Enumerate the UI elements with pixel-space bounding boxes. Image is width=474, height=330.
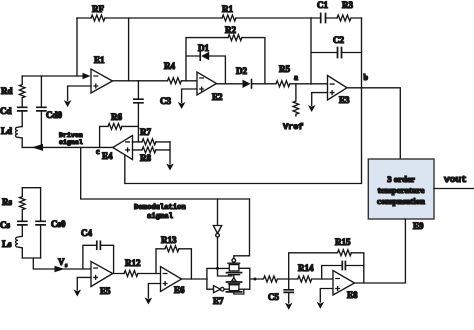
wire sensor to E1 inverting input with arrow — [22, 73, 90, 79]
svg-text:Ld: Ld — [1, 126, 12, 136]
resistor R7 — [133, 127, 171, 145]
wire Q2 bottom tail — [234, 289, 244, 294]
diode D1 — [186, 43, 225, 84]
svg-text:Cd0: Cd0 — [46, 110, 63, 120]
svg-text:R2: R2 — [225, 25, 236, 35]
resistor R2 — [186, 25, 265, 84]
ground E2 non-inverting — [178, 89, 197, 109]
svg-text:Cs: Cs — [0, 220, 10, 230]
wire E1 output leg up to bus — [128, 18, 130, 81]
wire demodulation signal from node c — [81, 147, 250, 221]
wire driven signal to sensor with arrow — [22, 132, 113, 156]
svg-text:Demodulation: Demodulation — [134, 204, 186, 212]
wire node b branch vertical — [361, 18, 363, 88]
svg-text:R8: R8 — [140, 153, 151, 163]
wire node a branch vertical — [310, 18, 312, 84]
resistor R6 feedback E4 — [100, 112, 139, 147]
svg-text:C1: C1 — [317, 0, 328, 10]
inductor Ls — [2, 236, 22, 258]
E7 input split — [207, 267, 229, 289]
svg-text:3 order: 3 order — [387, 174, 415, 184]
wire E2 output — [217, 83, 328, 85]
svg-text:R5: R5 — [279, 64, 290, 74]
svg-text:Rs: Rs — [2, 197, 12, 207]
ground E1 non-inverting — [64, 86, 91, 107]
ground R7 R8 — [166, 142, 174, 171]
svg-text:c: c — [96, 147, 100, 156]
resistor R14 — [298, 263, 333, 282]
wire RF left leg to E1 inverting input — [76, 18, 78, 76]
svg-text:R3: R3 — [342, 0, 353, 10]
resistor unlabeled after E7 — [262, 276, 298, 282]
node a — [294, 73, 298, 82]
ground E3 non-inverting — [308, 93, 328, 112]
svg-text:R6: R6 — [111, 112, 122, 122]
resistor R5 — [276, 64, 290, 87]
svg-text:Rd: Rd — [1, 86, 13, 96]
capacitor C4 feedback E5 — [81, 228, 114, 274]
capacitor C2 — [311, 35, 362, 58]
op-amp E8 — [333, 271, 358, 301]
svg-text:E7: E7 — [213, 296, 224, 306]
capacitor feedback E8 — [322, 262, 364, 280]
svg-text:E8: E8 — [347, 290, 358, 300]
svg-text:E6: E6 — [174, 285, 185, 295]
transistor Q2 lower switch — [213, 278, 250, 306]
svg-text:E5: E5 — [100, 286, 111, 296]
svg-text:E4: E4 — [102, 151, 113, 161]
svg-text:C5: C5 — [268, 292, 279, 302]
resistor R3 — [337, 0, 362, 21]
svg-text:vout: vout — [444, 174, 467, 185]
svg-text:temperature: temperature — [378, 185, 425, 195]
svg-text:R7: R7 — [140, 127, 151, 137]
wire upper to lower gate link — [218, 268, 234, 277]
wire E1 output to E2 — [113, 80, 198, 82]
op-amp E2 — [197, 72, 223, 102]
capacitor Cs0 — [36, 188, 66, 258]
svg-text:R15: R15 — [335, 237, 351, 247]
svg-text:Driven: Driven — [59, 132, 83, 139]
diode D2 — [236, 66, 252, 88]
op-amp E3 — [328, 76, 351, 106]
capacitor C1 — [311, 0, 337, 23]
resistor R4 — [164, 61, 181, 84]
op-amp E4 (left pointing) — [102, 136, 133, 162]
svg-text:Ls: Ls — [2, 239, 12, 249]
resistor Rd — [1, 76, 25, 107]
ground E5 non-inverting — [74, 277, 92, 296]
wire E8 output to E9 — [355, 219, 406, 283]
svg-text:a: a — [294, 73, 298, 82]
ground E8 non-inverting — [317, 289, 334, 309]
svg-text:E9: E9 — [413, 221, 424, 231]
resistor Rs — [2, 188, 41, 221]
transistor Q1 upper switch — [227, 259, 250, 275]
resistor R15 feedback E8 — [289, 237, 364, 283]
wire E6 output to E7 — [182, 278, 208, 280]
svg-text:V: V — [58, 257, 65, 267]
svg-text:R4: R4 — [164, 61, 175, 71]
svg-text:R14: R14 — [298, 263, 314, 273]
svg-text:RF: RF — [92, 4, 104, 14]
op-amp E6 — [161, 267, 186, 296]
svg-text:R12: R12 — [125, 258, 141, 268]
svg-text:R1: R1 — [222, 4, 233, 14]
svg-text:E2: E2 — [212, 92, 223, 102]
wire E3 output to node b and box — [347, 73, 400, 159]
wire top feedback bus y=18 — [77, 17, 311, 19]
svg-text:C4: C4 — [81, 228, 92, 238]
capacitor C5 to ground — [268, 279, 293, 310]
svg-text:Cd: Cd — [0, 106, 12, 116]
svg-text:b: b — [364, 73, 369, 82]
wire sensor bottom to E5 with Vs arrow — [22, 257, 91, 272]
wire demod to upper gate — [234, 199, 250, 259]
svg-text:signal: signal — [147, 213, 174, 221]
resistor R8 — [133, 147, 171, 163]
svg-text:C3: C3 — [160, 96, 171, 106]
svg-text:s: s — [65, 263, 68, 269]
svg-text:D1: D1 — [198, 43, 209, 53]
block E9 3-order temperature compensation — [368, 159, 434, 231]
resistor R12 — [113, 258, 161, 277]
capacitor C3 — [134, 81, 172, 142]
svg-text:signal: signal — [59, 139, 83, 146]
resistor Vref — [283, 84, 303, 132]
inverter E7 lower — [214, 286, 230, 293]
svg-text:C2: C2 — [333, 35, 344, 45]
wire node b return to E4 — [125, 88, 362, 184]
capacitor Cs — [0, 220, 27, 236]
svg-text:Vref: Vref — [283, 122, 303, 132]
svg-text:E1: E1 — [94, 55, 105, 65]
inductor Ld — [1, 126, 22, 147]
svg-text:E3: E3 — [339, 95, 350, 105]
wire vout output — [434, 174, 474, 189]
E7 output node — [250, 268, 262, 289]
resistor R1 — [222, 4, 236, 21]
inverter E7 top (demod to gates) — [213, 199, 221, 268]
svg-text:compnsation: compnsation — [377, 196, 425, 206]
ground E6 non-inverting — [145, 284, 161, 305]
op-amp E1 — [91, 55, 113, 93]
op-amp E5 — [91, 262, 113, 297]
resistor R13 feedback E6 — [156, 235, 191, 279]
capacitor Cd0 — [37, 76, 63, 147]
capacitor Cd — [0, 106, 27, 127]
svg-text:R13: R13 — [161, 235, 177, 245]
svg-text:D2: D2 — [236, 66, 247, 76]
svg-text:Cs0: Cs0 — [51, 219, 66, 229]
resistor RF — [91, 4, 105, 21]
